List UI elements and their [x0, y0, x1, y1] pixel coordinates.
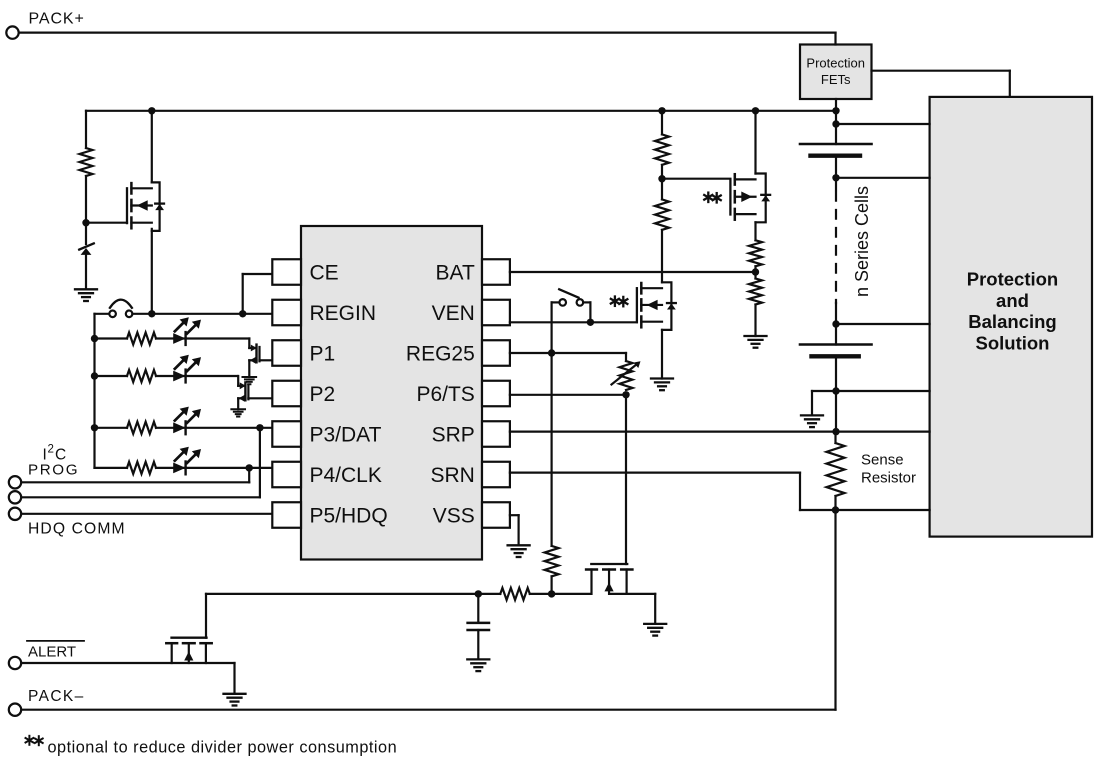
- svg-text:2: 2: [48, 444, 54, 456]
- svg-text:optional to reduce divider pow: optional to reduce divider power consump…: [48, 739, 398, 757]
- svg-text:PACK+: PACK+: [29, 11, 85, 28]
- svg-text:P6/TS: P6/TS: [416, 383, 474, 406]
- svg-text:VEN: VEN: [432, 302, 475, 325]
- svg-text:P5/HDQ: P5/HDQ: [310, 504, 388, 527]
- svg-text:FETs: FETs: [821, 72, 851, 87]
- svg-text:CE: CE: [310, 261, 339, 284]
- svg-text:REG25: REG25: [406, 342, 475, 365]
- svg-text:n Series Cells: n Series Cells: [852, 186, 872, 297]
- svg-text:Solution: Solution: [976, 333, 1050, 354]
- svg-text:Protection: Protection: [967, 268, 1058, 289]
- svg-text:ALERT: ALERT: [28, 644, 76, 661]
- svg-text:P4/CLK: P4/CLK: [310, 464, 382, 487]
- svg-text:PROG: PROG: [28, 462, 79, 479]
- svg-text:P2: P2: [310, 383, 336, 406]
- svg-text:REGIN: REGIN: [310, 302, 377, 325]
- svg-text:PACK–: PACK–: [28, 688, 85, 705]
- svg-text:Protection: Protection: [806, 56, 865, 71]
- svg-text:Balancing: Balancing: [968, 311, 1056, 332]
- svg-text:SRN: SRN: [430, 464, 474, 487]
- svg-text:VSS: VSS: [433, 504, 475, 527]
- svg-text:Resistor: Resistor: [861, 470, 916, 487]
- svg-text:and: and: [996, 290, 1029, 311]
- svg-text:SRP: SRP: [432, 423, 475, 446]
- svg-text:HDQ COMM: HDQ COMM: [28, 521, 126, 538]
- svg-text:P1: P1: [310, 342, 336, 365]
- svg-text:P3/DAT: P3/DAT: [310, 423, 382, 446]
- svg-text:BAT: BAT: [436, 261, 475, 284]
- svg-text:Sense: Sense: [861, 452, 904, 469]
